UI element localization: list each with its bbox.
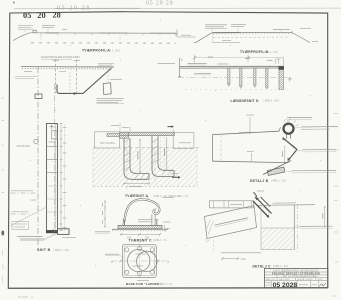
svg-text:TEGN: TEGN: [297, 279, 303, 281]
bracket thin line: [286, 141, 294, 148]
setting-out small dims: [24, 71, 32, 73]
title row5 dividers: [272, 280, 319, 287]
seabed diagonal: [11, 208, 46, 226]
water line 2: [11, 213, 30, 215]
anchor rod: [57, 69, 111, 94]
base label leader text: [105, 253, 119, 255]
ladder inner note: [49, 141, 57, 143]
anchor leader: [287, 170, 292, 172]
bottom leader line: [44, 234, 57, 240]
anchor plate (tilted): [103, 83, 111, 95]
timber strip: [210, 201, 254, 208]
turnbuckle dot: [73, 92, 75, 94]
plate corner ticks: [205, 238, 210, 243]
inner tick text: [247, 150, 254, 152]
dashed verticals right of pile: [160, 137, 162, 170]
profile A left label 1: [18, 26, 33, 30]
profile B right upper note: [300, 27, 311, 29]
profile B right slope: [293, 33, 311, 43]
davit support post: [151, 215, 153, 226]
right pile end cap: [173, 170, 175, 176]
deck step: [279, 127, 280, 131]
title row5 mid marks: [299, 284, 308, 286]
bolt diagonal 2: [257, 199, 272, 214]
soil hatch borders: [92, 149, 94, 187]
ladder top fitting: [50, 125, 54, 127]
centerline horizontal: [111, 260, 169, 262]
dim chain line: [60, 124, 62, 232]
ladder box: [47, 124, 58, 231]
right fill box: [173, 133, 194, 149]
title block outer: [264, 268, 328, 287]
top dim ticks: [120, 124, 173, 133]
ladder foot bracket: [58, 229, 70, 235]
setting-out hatch ticks: [22, 68, 112, 70]
profile A station ticks: [41, 33, 176, 36]
left margin dark blob: [1, 231, 4, 236]
profile B label 1 leader: [211, 29, 213, 33]
svg-text:OPFYLDNING: OPFYLDNING: [100, 143, 115, 145]
deck label 2: [217, 63, 228, 65]
title row5 small cell texts: [266, 283, 272, 286]
concrete left edge: [260, 205, 262, 228]
profile B ramp: [194, 33, 212, 43]
profile B dim text: [222, 40, 231, 42]
dim text rotated: [137, 151, 139, 159]
bottom leader texts: [17, 236, 43, 238]
anchor note underline: [97, 103, 125, 105]
profile A left label 2 leader: [47, 28, 49, 33]
foot bracket arrow: [53, 229, 58, 233]
svg-text:TVÆRSNIT A: TVÆRSNIT A: [125, 194, 148, 198]
dim chain faint second line: [64, 124, 66, 232]
bolt diagonal 3: [261, 197, 271, 207]
top dim end ticks: [195, 55, 249, 63]
plate bottom dashed vertical: [213, 241, 215, 253]
profile B dim line: [212, 41, 240, 43]
left pile inner: [130, 138, 149, 173]
fender right note: [301, 126, 338, 129]
bracket diagonal 1: [284, 139, 298, 150]
top dim texts: [208, 56, 213, 58]
upper dim vertical: [249, 117, 251, 134]
left pile end cap: [148, 173, 150, 179]
fender top label: [287, 117, 312, 119]
under-deck label: [194, 72, 211, 74]
svg-text:DETALJ C: DETALJ C: [253, 264, 272, 268]
sheet pile vertical: [293, 205, 295, 250]
hatch square: [261, 228, 294, 250]
anchor block hatched: [267, 167, 285, 175]
datum arrow note: [172, 173, 179, 175]
dim chain texts: [63, 128, 67, 228]
tilted plate text: [215, 218, 249, 227]
profile A right dim: [178, 36, 196, 38]
bracket right note: [302, 149, 336, 151]
profile B surface label: [273, 28, 290, 30]
pile 3: [254, 68, 256, 88]
profile B right slope note: [312, 41, 318, 43]
pile line B1: [55, 60, 57, 94]
fender ring: [284, 124, 294, 134]
deck bottom line: [180, 67, 284, 69]
fender box dim: [283, 57, 285, 66]
svg-text:20: 20: [37, 11, 45, 20]
bracket diagonal 2: [289, 150, 298, 160]
anchor plate leader note: [110, 78, 122, 80]
pipe circle 2: [137, 251, 157, 271]
left margin lower faint dashes: [2, 250, 5, 283]
foot dim text: [129, 185, 142, 187]
base outer plate: [122, 244, 156, 277]
pile 2: [240, 68, 242, 89]
deck top line: [180, 65, 284, 67]
tilted plate: [205, 206, 257, 239]
right pile hatch ticks: [153, 139, 172, 176]
svg-text:GODK: GODK: [317, 279, 324, 281]
base plate hatched: [118, 225, 162, 228]
base bolts: [124, 220, 157, 226]
svg-text:28: 28: [53, 11, 61, 20]
davit apex tick: [147, 196, 149, 199]
svg-text:( MÅL 1 : 5 ): ( MÅL 1 : 5 ): [153, 239, 167, 242]
deck top line sloped: [213, 131, 280, 134]
deck left label: [158, 63, 176, 65]
top dim texts: [111, 125, 119, 127]
right pile inner: [158, 136, 174, 171]
bolt holes: [125, 247, 155, 276]
pile line mid: [69, 72, 71, 94]
ghost header line dark segment: [55, 7, 140, 9]
deck bottom line: [213, 161, 289, 162]
deck slab main strip: [120, 132, 175, 135]
anchor waling box: [35, 94, 42, 99]
base dim line: [121, 233, 160, 235]
dim text rotated right: [164, 148, 166, 156]
title block rows: [264, 272, 328, 280]
svg-text:SPUNSVÆG: SPUNSVÆG: [17, 146, 31, 148]
svg-text:05 2028 — 2: 05 2028 — 2: [18, 295, 33, 299]
bracket dim vertical: [284, 146, 286, 164]
water line 1 label: [11, 190, 33, 192]
right dim text: [322, 213, 324, 219]
sheet pile note: [300, 225, 333, 227]
deck left end: [179, 58, 181, 77]
signature scribble: [320, 283, 326, 287]
upper dim text: [246, 114, 254, 116]
svg-text:LÆNGDESNIT D: LÆNGDESNIT D: [231, 99, 259, 103]
fender top label leader: [287, 120, 289, 126]
deck label: [188, 63, 207, 65]
svg-text:TVÆRSNIT C: TVÆRSNIT C: [129, 238, 153, 242]
profile A right end tick: [176, 30, 178, 38]
seabed faint: [185, 88, 288, 90]
right dim tick: [164, 225, 166, 232]
bolt diagonal 1: [253, 201, 268, 217]
profile B right corner tick: [291, 31, 293, 35]
ghost header line: [14, 7, 341, 10]
davit right note: [163, 221, 171, 223]
tilted plate end hatch: [206, 219, 214, 235]
top dim line: [195, 57, 284, 59]
profile A dimension text row: [31, 42, 176, 44]
anchor plate leader dashed: [107, 72, 109, 84]
profile A station verticals: [40, 33, 42, 41]
level note at wall: [31, 199, 37, 201]
scan speckles: [30, 20, 321, 266]
svg-text:( MÅL 1 : 10 ): ( MÅL 1 : 10 ): [271, 180, 286, 183]
profile A ramp: [13, 33, 30, 41]
dim chain ticks: [60, 124, 63, 231]
svg-text:SNIT OG DETALJER AF BOLVÆRK: SNIT OG DETALJER AF BOLVÆRK: [282, 275, 318, 278]
deck surface label: [95, 231, 110, 233]
end fender pile: [279, 70, 283, 90]
pile centerline left: [126, 131, 128, 190]
setting line label: [15, 77, 37, 79]
foot notes right: [62, 237, 76, 239]
ground line end tick: [110, 65, 112, 69]
davit dim texts: [102, 203, 104, 224]
anchor rod through block: [263, 161, 291, 175]
left margin dashes: [2, 98, 5, 193]
svg-text:( MÅL 1 : 5 ): ( MÅL 1 : 5 ): [159, 283, 173, 286]
right margin dashes: [334, 114, 340, 263]
deck downstand beam: [120, 132, 129, 138]
top dim slashes: [193, 56, 250, 59]
setting-out ground line: [21, 66, 114, 68]
right fill box text: [179, 142, 191, 144]
profile B dashed subgrade: [213, 36, 288, 38]
setting-out label underline: [41, 58, 72, 60]
left pile outer: [124, 138, 149, 179]
pile 4: [266, 68, 268, 89]
timber strip dividers: [214, 201, 252, 208]
upper datum arrow: [168, 126, 172, 128]
profile B label 2 leader: [237, 27, 239, 32]
sheet pile note leader: [294, 226, 299, 228]
inner tick: [251, 153, 253, 161]
deck left edge: [212, 135, 214, 162]
deck surface line: [112, 228, 168, 230]
ground line end label: [98, 63, 114, 65]
svg-text:05 20 28: 05 20 28: [146, 0, 174, 6]
title row3 divider: [276, 275, 278, 278]
timber strip cell text: [230, 204, 242, 206]
soil hatch region: [93, 149, 197, 187]
profile B hatch ticks: [213, 33, 290, 35]
pile 1: [228, 68, 230, 87]
davit tube: [124, 199, 160, 225]
right pile outer: [152, 136, 174, 177]
bolt circle symbol: [34, 139, 38, 143]
svg-text:SNIT B: SNIT B: [37, 248, 51, 252]
title row4 dividers: [277, 278, 316, 281]
profile B label 1: [205, 25, 227, 29]
base inner plate: [124, 246, 154, 276]
profile A left label 2: [42, 26, 55, 28]
svg-text:MÅL 1:50: MÅL 1:50: [266, 278, 275, 281]
setting line: [37, 67, 39, 245]
wall line: [54, 84, 56, 228]
dim vertical right: [166, 138, 168, 170]
concrete top line: [258, 204, 315, 207]
svg-text:AFSÆTNINGSLINIE FOR BOLVÆRK: AFSÆTNINGSLINIE FOR BOLVÆRK: [41, 56, 80, 59]
svg-text:KONTR: KONTR: [306, 279, 314, 281]
profile B label 2: [231, 24, 246, 26]
profile A small note: [62, 28, 67, 30]
svg-text:05 2028: 05 2028: [273, 282, 298, 289]
davit apex note: [163, 197, 175, 199]
datum arrow: [172, 176, 178, 178]
overkant note: [239, 131, 250, 134]
left fill box: [95, 132, 120, 148]
centerline vertical: [139, 243, 141, 281]
left pile hatch ticks: [125, 139, 149, 179]
anchor note: [292, 169, 336, 171]
ladder inner box: [52, 131, 58, 140]
profile B top line: [212, 31, 292, 33]
svg-text:( MÅL 1 : 10 ): ( MÅL 1 : 10 ): [273, 265, 288, 268]
svg-text:DATO 1968: DATO 1968: [279, 278, 290, 281]
ladder rungs: [47, 147, 58, 173]
mark above strip: [254, 192, 257, 199]
right dim vertical: [324, 206, 326, 227]
profile B vertical dash: [212, 33, 214, 43]
bottom dim marks: [137, 280, 149, 282]
water line 1: [11, 192, 39, 194]
fender ring hatch ticks: [284, 118, 299, 126]
waterline: [178, 77, 292, 79]
deck inner dashed: [220, 135, 222, 161]
fender location dark box: [279, 66, 285, 69]
svg-text:1,50: 1,50: [241, 258, 246, 261]
bolt rotated note: [264, 207, 270, 213]
anchor note text: [97, 98, 125, 102]
svg-text:05 20 28: 05 20 28: [57, 6, 91, 12]
inner diameter notes: [136, 253, 147, 255]
deck surface hatch: [112, 230, 168, 232]
profile A darker segments: [45, 32, 58, 34]
pile line B2 flag: [74, 60, 81, 62]
bracket dim text: [282, 151, 284, 157]
waterline cross mark: [288, 77, 292, 81]
bottom-right faint mark: [332, 295, 336, 297]
ladder box inner edge: [55, 124, 57, 231]
deck left dim text: [181, 59, 183, 62]
foot dim line: [124, 183, 149, 185]
svg-text:05: 05: [23, 11, 32, 20]
svg-text:BASE FOR “LADDER”: BASE FOR “LADDER”: [126, 282, 162, 286]
pipe circle 1: [128, 249, 150, 271]
registration dot top-left: [13, 2, 15, 4]
pile line B1 flag: [53, 60, 60, 62]
fender bracket verticals: [286, 134, 288, 139]
ladder dark bottom bar: [46, 230, 58, 233]
profile A left label 1 leader: [24, 29, 26, 32]
mark above note: [257, 190, 264, 192]
bottom dim line: [222, 258, 238, 260]
svg-text:DETALJ B: DETALJ B: [250, 179, 269, 183]
deck slab left strip: [107, 134, 120, 137]
davit label text: [138, 220, 153, 222]
overside beton label: [273, 202, 297, 204]
bottom line: [221, 252, 261, 254]
deck joint ticks: [198, 66, 270, 68]
legend label box: [12, 222, 29, 230]
davit left dim line: [104, 201, 106, 228]
profile A bollard box: [33, 30, 36, 33]
svg-text:ENGHAVE BRYGGE LYSTBÅDEHAVN: ENGHAVE BRYGGE LYSTBÅDEHAVN: [272, 272, 320, 275]
dim vertical left: [139, 139, 141, 173]
sheet pile dashed: [297, 204, 299, 254]
water line 2 label: [12, 211, 29, 213]
pile line B2: [76, 60, 78, 95]
pile centerline right: [154, 131, 156, 185]
profile A ground line: [30, 32, 177, 35]
underside dashed line: [93, 147, 200, 149]
profile B darker segment: [213, 32, 240, 34]
